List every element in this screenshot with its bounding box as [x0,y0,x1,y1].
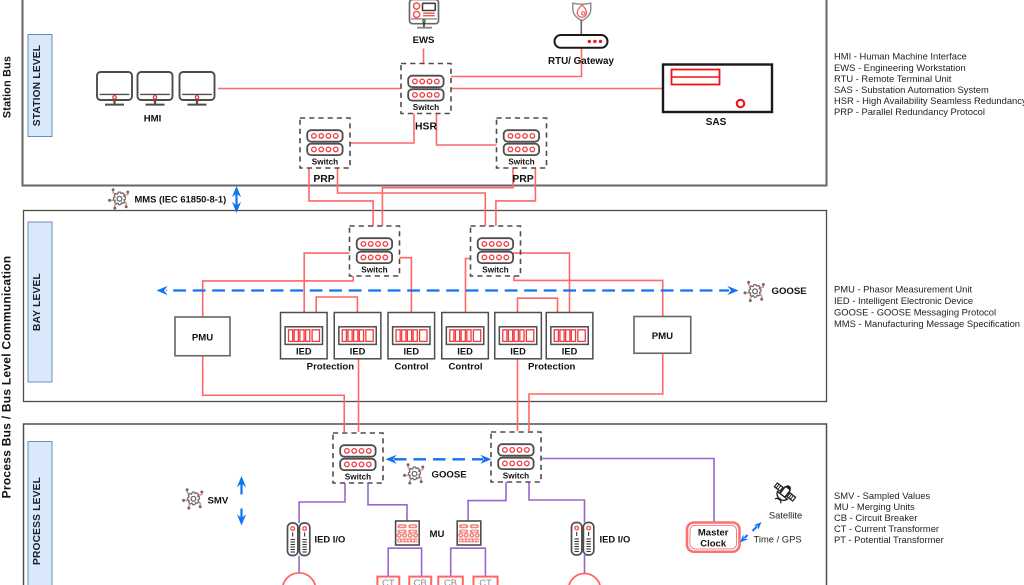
wire bay switch right to IED4 [466,259,471,313]
wire bay switch left to IED3 [400,258,412,313]
svg-text:PROCESS LEVEL: PROCESS LEVEL [32,477,43,565]
svg-text:Process Bus / Bus Level Commun: Process Bus / Bus Level Communication [0,256,14,499]
PMU box left [175,317,230,356]
wire IED I/O 2 to CB circle 2 [584,555,586,573]
RTU/Gateway router [555,35,608,48]
svg-text:SAS - Substation Automation Sy: SAS - Substation Automation System [834,84,989,95]
wire shield to RTU [580,20,582,36]
svg-text:MMS - Manufacturing Message Sp: MMS - Manufacturing Message Specificatio… [834,318,1020,329]
svg-text:HMI: HMI [144,114,162,125]
svg-text:GOOSE: GOOSE [772,286,808,297]
HSR switch (station) [401,64,451,114]
CB box 3 [438,577,463,585]
station level container box [23,0,827,186]
svg-text:CB - Circuit Breaker: CB - Circuit Breaker [834,512,917,523]
wire MU2 to CT/PT boxes [451,548,486,576]
svg-text:IED I/O: IED I/O [315,534,346,545]
GOOSE process gear icon [403,463,424,484]
PRP switch right [497,118,547,168]
svg-text:Protection: Protection [528,362,576,373]
svg-text:MMS (IEC 61850-8-1): MMS (IEC 61850-8-1) [135,193,227,204]
svg-text:EWS: EWS [413,35,435,46]
svg-text:HMI - Human Machine Interface: HMI - Human Machine Interface [834,50,967,61]
MU 1 [396,521,420,545]
svg-text:IED - Intelligent Electronic D: IED - Intelligent Electronic Device [834,295,973,306]
svg-text:PRP: PRP [512,174,533,185]
svg-text:SMV: SMV [208,496,229,507]
svg-text:CB: CB [414,577,427,585]
wire PRP left to bay switch left [309,168,373,226]
bay level container box [24,211,827,402]
wire bay switch left to IED1 [304,253,349,312]
PRP switch left [300,118,350,168]
svg-text:BAY LEVEL: BAY LEVEL [32,273,43,331]
Time/GPS blue arrow down-left [738,534,748,544]
IED 5 [495,313,542,359]
svg-text:Clock: Clock [700,539,727,550]
IED 4 [442,313,489,359]
CB circle 2 [569,574,601,585]
wire process switch right to MU2 [468,482,506,521]
STATION LEVEL label box [28,35,52,137]
svg-text:Master: Master [698,528,729,539]
wire MU1 to CT/PT boxes [388,548,421,576]
HMI monitor 3 [180,72,215,105]
wire HSR switch to RTU/Gateway [451,48,582,77]
wire PRP right to bay switch right [496,168,536,226]
svg-text:PRP: PRP [313,174,334,185]
bay switch left [350,226,400,276]
wire IED I/O 1 to CB circle 1 [298,556,300,573]
IED I/O 1 towers [288,523,298,556]
svg-text:Station Bus: Station Bus [2,56,14,118]
IED 6 [546,313,593,359]
wire process switch right to master clock [541,459,714,523]
SAS server box [663,65,772,113]
CB box 2 [409,577,431,585]
BAY LEVEL label box [28,222,52,382]
IED 2 [334,313,381,359]
MMS blue double arrow [232,186,241,213]
IED 3 [388,313,435,359]
process switch right [491,432,541,482]
SMV blue up arrow [237,476,246,495]
wire PRP right to bay switch left [382,168,513,226]
legend process level [834,490,944,545]
svg-text:PT - Potential Transformer: PT - Potential Transformer [834,534,944,545]
svg-text:GOOSE - GOOSE Messaging Protoc: GOOSE - GOOSE Messaging Protocol [834,306,996,317]
svg-text:RTU - Remote Terminal Unit: RTU - Remote Terminal Unit [834,73,952,84]
wire bay switch right to IED6 [513,253,570,312]
svg-text:CT - Current Transformer: CT - Current Transformer [834,523,939,534]
CB circle 1 [283,573,316,585]
MMS gear icon [108,188,129,209]
svg-text:PMU: PMU [652,331,673,342]
legend station level [834,50,1024,117]
wire PMU1 to bay switch left [203,276,354,317]
wire EWS to HSR switch [423,49,425,64]
SMV gear icon [182,488,203,509]
svg-text:Time / GPS: Time / GPS [754,534,802,545]
svg-text:MU: MU [430,529,445,540]
Time/GPS blue arrow up-right [753,520,764,531]
process level container box [24,424,827,585]
wire IED2 to process switch left [358,359,360,432]
IED I/O 2 towers [572,523,582,556]
wire PMU2 to process switch right [529,353,663,431]
svg-text:CB: CB [444,577,457,585]
wire process switch left to MU1 [368,483,407,521]
Master Clock box [687,523,740,552]
CT box 4 [474,577,498,585]
svg-text:EWS - Engineering Workstation: EWS - Engineering Workstation [834,62,966,73]
svg-text:SMV - Sampled Values: SMV - Sampled Values [834,490,931,501]
wire IED5 to process switch right [517,359,519,431]
legend bay level [834,283,1020,329]
GOOSE bay bus dashed arrow [157,286,739,295]
bay switch right [471,226,521,276]
svg-text:Control: Control [448,362,482,373]
svg-text:PMU: PMU [192,333,213,344]
svg-text:MU - Merging Units: MU - Merging Units [834,501,915,512]
CT box 1 [377,577,399,585]
svg-text:Protection: Protection [307,362,355,373]
svg-text:GOOSE: GOOSE [432,470,468,481]
wire IED1 to IED2 [316,297,357,313]
wire PRP left to bay switch right [338,168,486,226]
svg-text:SAS: SAS [706,117,727,128]
wire bay switch right to PMU2 [514,276,663,317]
svg-text:Control: Control [394,362,428,373]
svg-text:CT: CT [382,577,395,585]
wire HMI to HSR switch [218,88,401,90]
GOOSE bay gear icon [744,281,765,302]
satellite icon [769,479,799,508]
EWS workstation icon [410,0,439,28]
wire process switch left to IED I/O 1 [299,483,345,523]
HMI monitor 1 [97,72,132,105]
GOOSE process bus dashed arrow [386,455,492,464]
wire PMU1 to process switch left [203,356,345,432]
HMI monitor 2 [138,72,173,105]
svg-text:HSR - High Availability Seamle: HSR - High Availability Seamless Redunda… [834,95,1024,106]
svg-text:PRP - Parallel Redundancy Prot: PRP - Parallel Redundancy Protocol [834,106,985,117]
process switch left [333,433,383,483]
wire HSR switch to SAS [451,88,663,90]
PROCESS LEVEL label box [28,442,52,585]
svg-text:CT: CT [479,577,492,585]
firewall shield icon [573,3,591,21]
PMU box right [634,317,691,354]
wire IED5 to IED6 [518,298,558,312]
wire process switch right to IED I/O 2 [529,482,585,523]
svg-text:RTU/ Gateway: RTU/ Gateway [548,56,614,67]
IED 1 [281,313,328,359]
wire HSR switch to PRP switch left [350,114,414,144]
svg-text:Satellite: Satellite [769,510,802,521]
svg-text:PMU - Phasor Measurement Unit: PMU - Phasor Measurement Unit [834,283,972,294]
wire HSR switch to PRP switch right [437,114,497,146]
svg-text:IED I/O: IED I/O [600,534,631,545]
MU 2 [457,521,481,545]
SMV blue down arrow [237,509,246,526]
svg-text:STATION LEVEL: STATION LEVEL [32,45,43,126]
svg-text:HSR: HSR [415,122,437,133]
